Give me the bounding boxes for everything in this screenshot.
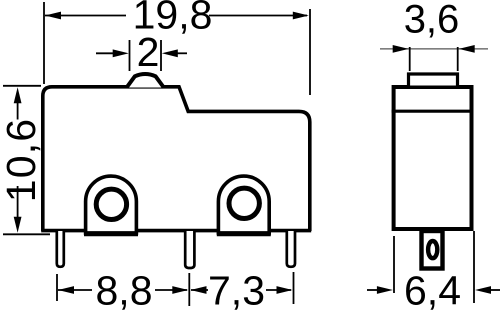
dim 19,8 line right segment with arrow bbox=[209, 15, 307, 17]
dim 8,8 line left segment with arrow bbox=[58, 289, 92, 291]
dim 3,6 thin line across bbox=[380, 48, 488, 50]
dim 10,6 line top segment with up arrow bbox=[17, 98, 19, 120]
dim 3,6 extension line left bbox=[409, 47, 411, 71]
left view: terminal pin 2 bbox=[185, 231, 194, 268]
right view: switch body bbox=[394, 87, 472, 229]
left view: boss 2 bottom bar bbox=[217, 231, 271, 236]
dim 3,6 right arrow bbox=[459, 45, 475, 53]
right view: cap seam line bbox=[392, 110, 474, 113]
svg-text:10,6: 10,6 bbox=[0, 118, 44, 203]
dim 10,6 extension line top bbox=[3, 85, 41, 87]
dim 2 right arrow bbox=[175, 52, 187, 54]
svg-text:7,3: 7,3 bbox=[208, 268, 265, 313]
dim 10,6 line bottom segment with down arrow bbox=[17, 186, 19, 222]
dim 2 extension tick left bbox=[129, 40, 131, 71]
dim 2 left arrow bbox=[96, 52, 115, 54]
dim 6,4 left arrow with shaft bbox=[367, 289, 380, 291]
svg-text:2: 2 bbox=[137, 29, 160, 75]
dim 7,3 line right segment with arrow bbox=[266, 289, 291, 291]
dim 7,3 line left segment with arrow bbox=[191, 289, 208, 291]
dim 8,8 extension line left bbox=[56, 274, 58, 301]
left view: body bottom edge bbox=[41, 229, 311, 233]
left view: terminal pin 1 bbox=[57, 231, 64, 267]
left view: mounting hole circle 2 bbox=[229, 188, 259, 218]
dim 19,8 extension line right bbox=[309, 9, 311, 95]
left view: switch body outline bbox=[43, 87, 310, 231]
svg-text:6,4: 6,4 bbox=[404, 268, 461, 313]
dim 10,6 extension line bottom bbox=[3, 233, 50, 235]
dim 3,6 extension line right bbox=[457, 47, 459, 71]
left view: mounting hole circle 1 bbox=[96, 189, 126, 219]
right view: button plunger bbox=[409, 74, 458, 86]
left view: boss 1 bottom bar bbox=[84, 231, 138, 236]
left view: mounting boss 2 bbox=[218, 176, 269, 233]
right view: terminal pin with hole bbox=[422, 231, 443, 269]
dim 6,4 extension line left bbox=[393, 236, 395, 293]
left view: terminal pin 3 bbox=[287, 231, 295, 267]
shared extension line between 8,8 and 7,3 bbox=[188, 273, 190, 306]
left view: mounting boss 1 bbox=[86, 176, 137, 233]
svg-text:8,8: 8,8 bbox=[96, 268, 153, 313]
dim 19,8 line left segment with arrow bbox=[45, 15, 126, 17]
dim 6,4 extension line right bbox=[473, 231, 475, 303]
left view: actuator button dome bbox=[127, 74, 164, 88]
dim 19,8 extension line left bbox=[43, 2, 45, 84]
dim 3,6 left arrow bbox=[393, 45, 409, 53]
dim 6,4 right arrow with shaft bbox=[486, 289, 500, 291]
svg-text:3,6: 3,6 bbox=[404, 0, 460, 42]
right view: pin hole bbox=[428, 241, 437, 258]
dim 7,3 extension line right bbox=[293, 272, 295, 304]
dim 8,8 line right segment with arrow bbox=[155, 289, 187, 291]
dim 2 extension tick right bbox=[160, 40, 162, 71]
